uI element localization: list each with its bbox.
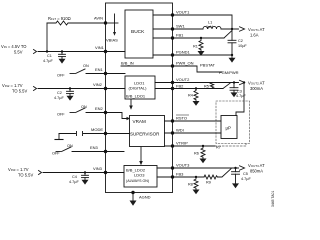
block VRAM SUPERVISOR — [130, 116, 165, 147]
svg-text:VOUT2 AT: VOUT2 AT — [248, 81, 265, 86]
svg-text:BUCK: BUCK — [131, 29, 145, 35]
node PGND1 join — [231, 54, 233, 56]
svg-text:FB2: FB2 — [176, 83, 184, 88]
ground R8 — [193, 190, 200, 195]
svg-text:4.7μF: 4.7μF — [54, 96, 64, 100]
svg-text:MODE: MODE — [91, 127, 103, 132]
pin VOUT3 — [171, 166, 174, 169]
resistor R1 — [199, 38, 203, 51]
svg-text:OFF: OFF — [57, 74, 65, 78]
wire RSTO — [165, 120, 222, 122]
ground R6 — [200, 159, 207, 164]
svg-text:μP: μP — [226, 126, 232, 131]
wire VIN3 input — [43, 172, 106, 174]
ground C1 — [59, 59, 66, 64]
pin WDI — [171, 131, 174, 134]
node C1 tap — [61, 50, 63, 52]
svg-text:VOUT2: VOUT2 — [176, 77, 190, 82]
wire FB2 — [155, 88, 223, 90]
svg-text:TO 5.5V: TO 5.5V — [12, 89, 27, 94]
capacitor C3 out — [233, 83, 235, 88]
svg-text:PGND1: PGND1 — [176, 50, 191, 55]
svg-text:(DIGITAL): (DIGITAL) — [129, 86, 148, 91]
wire FB3 — [157, 176, 204, 178]
svg-text:AVIN: AVIN — [94, 16, 103, 21]
svg-text:VIN3: VIN3 — [93, 166, 103, 171]
pin PGND1 — [171, 53, 174, 56]
output arrow VOUT2 — [240, 80, 245, 84]
block BUCK — [125, 10, 153, 58]
wire VIN3 internal — [106, 172, 125, 174]
node VOUT1 — [231, 28, 233, 30]
svg-text:VTRIP: VTRIP — [176, 141, 188, 146]
wire uP supply — [236, 83, 244, 116]
svg-text:SW1: SW1 — [176, 24, 185, 29]
svg-text:SUPERVISOR: SUPERVISOR — [130, 132, 160, 137]
svg-text:VIN2 = 1.7V: VIN2 = 1.7V — [2, 83, 23, 88]
svg-text:C5: C5 — [243, 172, 248, 176]
svg-text:VOUT3 AT: VOUT3 AT — [248, 163, 265, 168]
svg-text:ON: ON — [83, 64, 89, 68]
svg-text:EN1: EN1 — [95, 67, 104, 72]
svg-text:FB1: FB1 — [176, 33, 184, 38]
ground C4 — [82, 180, 89, 185]
node VOUT2 — [233, 81, 235, 83]
svg-text:VIN = 4.5V TO: VIN = 4.5V TO — [1, 44, 27, 49]
inductor L1 — [203, 26, 221, 29]
svg-text:B/B_IN: B/B_IN — [121, 61, 134, 66]
svg-text:850mA: 850mA — [250, 169, 263, 174]
node VOUT3 — [234, 167, 236, 169]
svg-text:C3: C3 — [237, 90, 242, 94]
svg-text:EN3: EN3 — [90, 145, 99, 150]
svg-text:EN2: EN2 — [95, 106, 104, 111]
svg-text:OFF: OFF — [57, 113, 65, 117]
svg-text:R1: R1 — [193, 45, 198, 49]
wire VIN2 internal — [106, 88, 126, 90]
ground AGND — [132, 193, 134, 201]
svg-text:5.5V: 5.5V — [14, 50, 23, 55]
resistor R5 divider top — [210, 83, 213, 89]
output arrow VOUT1 — [240, 27, 245, 31]
pin VOUT1 — [171, 13, 174, 16]
svg-text:VIN3 = 1.7V: VIN3 = 1.7V — [8, 167, 29, 172]
pin PWR_ON — [171, 64, 174, 67]
node FB2 — [195, 87, 197, 89]
wire VOUT2 — [155, 82, 239, 84]
ground R1 — [198, 51, 205, 56]
capacitor C1 — [61, 52, 63, 55]
pin SW1 — [171, 27, 174, 30]
switch EN1 — [70, 73, 75, 75]
svg-text:R5: R5 — [204, 85, 209, 89]
node FB3 — [195, 176, 197, 178]
wire VIN1 internal — [106, 51, 126, 53]
node C2in tap — [69, 87, 71, 89]
svg-text:VOUT1 AT: VOUT1 AT — [248, 27, 265, 32]
svg-text:TO 5.5V: TO 5.5V — [18, 173, 33, 178]
output arrow VOUT3 — [240, 166, 245, 170]
pin VIN1 — [104, 50, 107, 53]
svg-text:ON: ON — [81, 105, 87, 109]
wire PWR_ON B/B_IN — [121, 65, 173, 67]
node VBIAS internal arrow — [114, 14, 116, 32]
node LDO1 internal arrow — [130, 99, 132, 106]
wire riser RFLT to VIN — [46, 23, 48, 52]
wire EN1 internal — [106, 73, 126, 75]
node C4in tap — [84, 171, 86, 173]
svg-text:L1: L1 — [208, 21, 212, 25]
node VTRIP — [202, 145, 204, 147]
capacitor C2 out — [231, 29, 233, 40]
pin MODE — [104, 132, 107, 135]
resistor R9 series — [204, 175, 218, 179]
svg-text:AGND: AGND — [139, 195, 151, 200]
svg-text:RSTO: RSTO — [176, 116, 187, 121]
pin VIN2 — [104, 87, 107, 90]
svg-text:C1: C1 — [47, 54, 52, 58]
pin AGND — [131, 191, 134, 194]
node FB1 — [200, 37, 202, 39]
svg-text:3445 TA01: 3445 TA01 — [271, 191, 275, 207]
wire EN3 internal — [106, 151, 125, 153]
svg-text:R4: R4 — [188, 94, 193, 98]
svg-text:LDO3: LDO3 — [134, 173, 145, 178]
svg-text:4.7μF: 4.7μF — [241, 177, 251, 181]
pin FB1 — [171, 36, 174, 39]
svg-text:10μF: 10μF — [238, 44, 247, 48]
svg-text:RFLT = 910Ω: RFLT = 910Ω — [48, 16, 71, 21]
resistor R4 — [194, 89, 198, 102]
svg-text:300mA: 300mA — [250, 86, 263, 91]
svg-text:(ALWAYS ON): (ALWAYS ON) — [126, 179, 149, 183]
svg-text:4.7μF: 4.7μF — [69, 180, 79, 184]
svg-text:1.6A: 1.6A — [250, 33, 259, 38]
svg-text:PWR_ON: PWR_ON — [176, 61, 194, 66]
svg-text:ON: ON — [67, 144, 73, 148]
dashed option box around uP — [216, 101, 250, 144]
wire FB3 diagonal — [218, 169, 232, 177]
op-amp U1 outer IC box — [106, 3, 173, 193]
wire VTRIP — [165, 145, 216, 147]
svg-text:R9: R9 — [206, 181, 211, 185]
svg-text:4.7μF: 4.7μF — [236, 94, 246, 98]
resistor RFLT — [47, 21, 106, 25]
ground R4 — [193, 101, 200, 106]
svg-text:FB3: FB3 — [176, 172, 184, 177]
switch EN2 — [70, 112, 75, 114]
wire WDI — [165, 132, 222, 134]
block LDO3 always-on — [124, 166, 157, 188]
svg-text:VRAM: VRAM — [133, 119, 146, 124]
wire EN2 internal with arrow — [106, 113, 127, 119]
wire FB1 diagonal to node — [224, 31, 232, 39]
pin RSTO — [171, 119, 174, 122]
ground C2 out — [229, 58, 236, 63]
wire VOUT1 pin to output node — [153, 15, 232, 29]
block LDO1 — [125, 76, 155, 99]
jumper MODE to ground — [59, 133, 76, 135]
svg-text:OFF: OFF — [52, 152, 60, 156]
pin FB3 — [171, 175, 174, 178]
svg-text:VIN1: VIN1 — [95, 45, 105, 50]
pin FB2 — [171, 87, 174, 90]
capacitor C2 input — [69, 89, 71, 92]
node riser join — [46, 50, 48, 52]
svg-text:WDI: WDI — [176, 128, 184, 133]
switch EN3 — [56, 151, 61, 153]
wire supervisor to LDO3 arrow — [140, 147, 142, 161]
svg-text:VIN2: VIN2 — [93, 82, 103, 87]
svg-text:C2: C2 — [57, 91, 62, 95]
svg-text:R8: R8 — [188, 183, 193, 187]
pin EN3 — [104, 150, 107, 153]
resistor R6 — [201, 146, 205, 159]
ground C5 out — [232, 183, 239, 188]
wire L1 to node — [221, 28, 239, 30]
wire AVIN internal — [106, 22, 119, 24]
node uP supply tap — [243, 81, 245, 83]
wire PBSTAT jog — [173, 66, 223, 72]
ground C2 — [67, 96, 74, 101]
pin AVIN — [104, 21, 107, 24]
capacitor C4 input — [84, 173, 86, 176]
svg-text:PGM/PWR: PGM/PWR — [219, 70, 239, 75]
wire VTRIP dashed to uP — [215, 144, 246, 147]
wire MODE internal — [106, 133, 130, 135]
svg-text:C2: C2 — [238, 39, 243, 43]
svg-text:R7: R7 — [216, 146, 221, 150]
pin EN1 — [104, 72, 107, 75]
pin EN2 — [104, 111, 107, 114]
svg-text:R6: R6 — [194, 152, 199, 156]
capacitor C5 out — [235, 168, 237, 172]
wire PGND1 — [153, 54, 232, 56]
ground C3 out — [231, 92, 238, 97]
svg-text:1μH: 1μH — [206, 25, 213, 29]
svg-text:C4: C4 — [72, 175, 77, 179]
wire VIN1 input — [38, 51, 106, 53]
svg-text:4.7μF: 4.7μF — [43, 59, 53, 63]
svg-text:B/B_LDO1: B/B_LDO1 — [126, 94, 146, 99]
svg-text:VBIAS: VBIAS — [106, 38, 118, 43]
wire SW1 internal — [153, 28, 173, 30]
pin VIN3 — [104, 171, 107, 174]
wire FB1 — [153, 37, 224, 39]
wire SW1 to inductor — [173, 28, 204, 30]
svg-text:VOUT1: VOUT1 — [176, 10, 190, 15]
microprocessor uP box — [221, 116, 237, 139]
wire VOUT3 — [157, 167, 239, 169]
svg-text:VOUT3: VOUT3 — [176, 163, 190, 168]
pin VTRIP — [171, 144, 174, 147]
wire FB2 diagonal — [223, 83, 230, 88]
overbar RSTO line — [176, 114, 189, 116]
resistor R8 — [194, 177, 198, 190]
pin VOUT2 — [171, 81, 174, 84]
wire VIN2 input — [38, 88, 106, 90]
svg-text:PBSTAT: PBSTAT — [200, 63, 216, 68]
